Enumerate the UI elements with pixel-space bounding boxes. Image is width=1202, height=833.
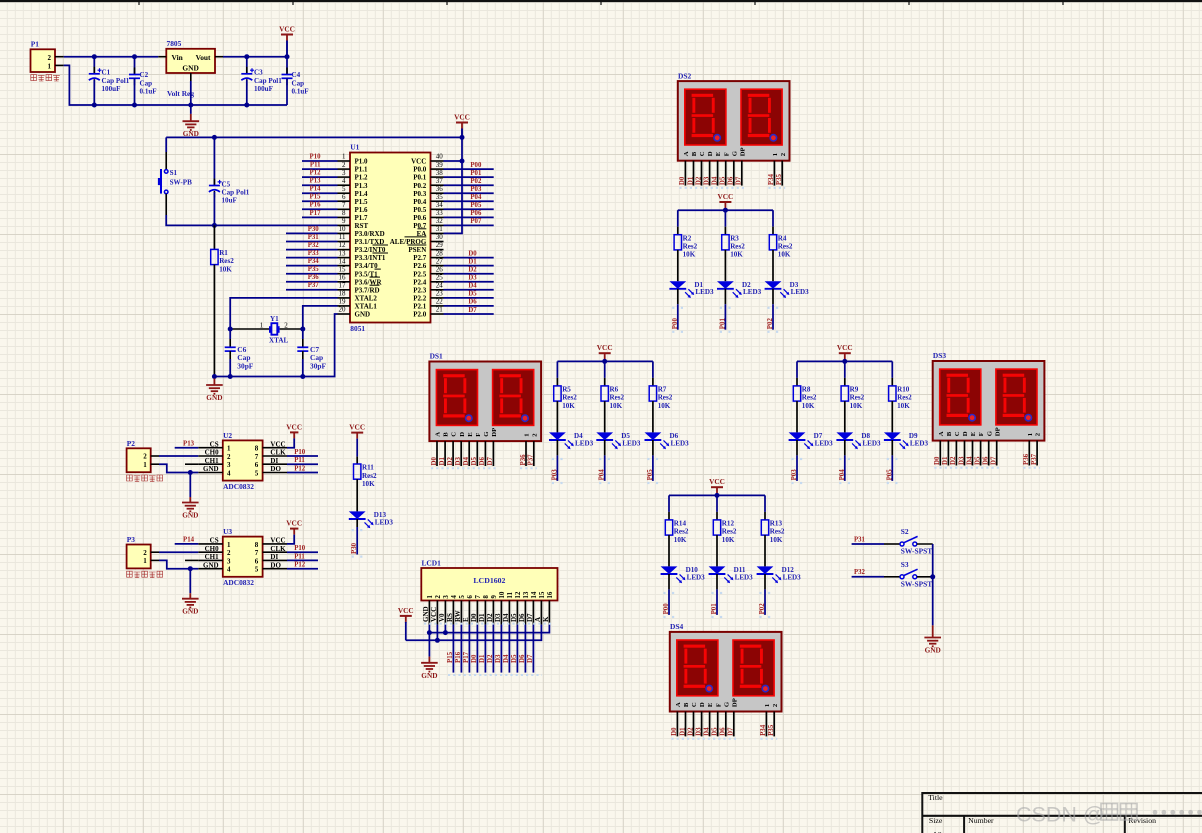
svg-text:D2: D2 [468, 267, 477, 274]
svg-text:CH0: CH0 [205, 545, 220, 553]
svg-text:D: D [699, 702, 706, 707]
svg-text:GND: GND [422, 606, 430, 622]
DS3 pin 4 [964, 441, 966, 466]
junction RST node [212, 223, 217, 228]
svg-text:5: 5 [458, 595, 466, 599]
LED D9 [884, 432, 929, 449]
wire rail to R3 [724, 210, 726, 227]
svg-text:P34: P34 [308, 258, 320, 265]
wire P14 to U1 pin 5 [302, 192, 338, 194]
svg-text:5: 5 [255, 470, 259, 478]
svg-text:10K: 10K [722, 536, 735, 544]
svg-text:P30: P30 [308, 226, 320, 233]
svg-text:P02: P02 [767, 318, 774, 330]
compile marks [672, 307, 683, 309]
compile marks [759, 592, 770, 594]
svg-text:10K: 10K [730, 251, 743, 259]
svg-text:P01: P01 [711, 603, 718, 615]
junction rail C6 [228, 374, 233, 379]
svg-text:VCC: VCC [270, 440, 285, 448]
LCD1 pin numbers [426, 591, 554, 599]
wire P01 from U1 pin 38 [444, 176, 494, 178]
svg-text:P32: P32 [854, 569, 866, 576]
svg-text:D4: D4 [503, 654, 510, 663]
wire LCD pin 4 down [452, 625, 454, 673]
DS4 pin 7 [725, 712, 727, 737]
power GND at 429,663 [421, 657, 438, 680]
svg-text:Res2: Res2 [658, 394, 673, 402]
svg-text:VCC: VCC [597, 343, 613, 352]
svg-text:1: 1 [426, 595, 434, 599]
svg-text:1: 1 [227, 541, 231, 549]
sheet border top edge [0, 0, 1202, 5]
svg-text:20: 20 [339, 306, 347, 314]
svg-text:D4: D4 [463, 457, 470, 466]
wire P03 from U1 pin 36 [444, 192, 494, 194]
svg-text:GND: GND [182, 607, 198, 616]
wire P3 pin2 to CH0 [159, 551, 198, 553]
svg-text:D3: D3 [468, 275, 477, 282]
wire P05 from U1 pin 34 [444, 208, 494, 210]
svg-text:RW: RW [454, 610, 462, 622]
U2 CH1 pin lead [185, 463, 198, 465]
DS3 pin 10 [1036, 441, 1038, 466]
svg-text:DS4: DS4 [670, 622, 683, 631]
svg-text:PSEN: PSEN [408, 246, 426, 254]
svg-text:SW-SPST: SW-SPST [901, 579, 932, 588]
U2 left pins [198, 440, 231, 477]
svg-text:23: 23 [436, 290, 444, 298]
wire C6 bottom [229, 351, 231, 359]
svg-text:Number: Number [968, 816, 994, 825]
wire switches to GND [932, 544, 934, 625]
resistor R13 [761, 520, 785, 544]
compile marks [934, 467, 999, 469]
svg-text:D5: D5 [712, 727, 719, 736]
compile marks [767, 307, 778, 309]
svg-text:D2: D2 [486, 613, 494, 622]
svg-text:Res2: Res2 [562, 394, 577, 402]
svg-text:VCC: VCC [837, 343, 853, 352]
DS1 segment pin letters [435, 428, 539, 437]
compile marks [647, 458, 658, 460]
power GND at 190,599 [182, 593, 199, 616]
svg-text:D0: D0 [471, 654, 478, 663]
DS1 pin 3 [452, 441, 454, 466]
svg-text:28: 28 [436, 249, 444, 257]
svg-text:10uF: 10uF [222, 197, 237, 205]
svg-text:P30: P30 [351, 542, 358, 554]
svg-text:P1.0: P1.0 [355, 158, 369, 166]
capacitor C3 [241, 67, 282, 93]
wire C3 stem [246, 57, 248, 74]
op-amp U3 body (ADC0832) [223, 527, 263, 587]
junction rail center [723, 208, 728, 213]
wire D2 from U1 pin 26 [444, 273, 494, 275]
wire P10 to U1 pin 1 [302, 160, 338, 162]
svg-text:40: 40 [436, 153, 444, 161]
svg-text:ADC0832: ADC0832 [223, 578, 254, 587]
LED D10 [661, 566, 706, 583]
LED D1 [669, 281, 714, 298]
wire P12 from U3 [287, 568, 318, 570]
svg-text:D0: D0 [468, 250, 477, 257]
svg-text:GND: GND [203, 465, 219, 473]
svg-text:P04: P04 [599, 469, 606, 481]
svg-text:D6: D6 [468, 299, 477, 306]
svg-text:LCD1602: LCD1602 [473, 576, 505, 585]
svg-text:GND: GND [203, 561, 219, 569]
wire P12 from U2 [287, 472, 318, 474]
connector P1 [31, 40, 64, 73]
wire R2 to D1 [677, 250, 679, 281]
DS4 pin 9 [765, 712, 767, 737]
svg-text:DS1: DS1 [430, 352, 443, 361]
wire D0 from U1 pin 28 [444, 257, 494, 259]
DS4 segment pin letters [675, 698, 779, 707]
svg-text:R12: R12 [722, 520, 735, 528]
LCD1 pins [422, 601, 550, 625]
svg-text:10K: 10K [683, 251, 696, 259]
svg-text:P33: P33 [308, 250, 320, 257]
DS2 right digit [741, 89, 782, 145]
LED D12 [757, 566, 802, 583]
svg-text:30pF: 30pF [310, 361, 327, 370]
svg-text:VCC: VCC [270, 537, 285, 545]
svg-text:2: 2 [143, 453, 147, 461]
svg-text:3: 3 [227, 461, 231, 469]
svg-text:P1.7: P1.7 [355, 214, 369, 222]
svg-text:0.1uF: 0.1uF [140, 88, 157, 96]
svg-text:R13: R13 [770, 520, 783, 528]
svg-text:Res2: Res2 [362, 472, 377, 480]
svg-text:DS3: DS3 [933, 351, 946, 360]
svg-text:LED3: LED3 [695, 288, 714, 296]
DS1 right digit [493, 370, 534, 426]
U1 EA overline [418, 228, 427, 230]
svg-text:VCC: VCC [286, 422, 302, 431]
wire LCD pin 13 down [524, 625, 526, 673]
wire LCD pin3 down [444, 625, 446, 633]
DS2 pin 9 [773, 161, 775, 186]
svg-text:F: F [715, 703, 722, 707]
wire 7805 GND drop [190, 81, 192, 105]
svg-text:P03: P03 [470, 186, 482, 193]
svg-text:D: D [707, 151, 714, 156]
svg-text:A: A [683, 151, 690, 156]
power VCC at 845,353 [837, 343, 853, 361]
svg-text:D1: D1 [468, 258, 477, 265]
svg-text:C2: C2 [140, 71, 149, 79]
resistor R11 [354, 464, 378, 488]
svg-text:D6: D6 [728, 176, 735, 185]
wire P10 from U2 [287, 455, 318, 457]
compile marks [431, 467, 496, 469]
svg-text:6: 6 [255, 557, 259, 565]
DS3 pin 2 [947, 441, 949, 466]
wire D6 down [652, 440, 654, 455]
svg-text:14: 14 [339, 257, 347, 265]
svg-text:30pF: 30pF [237, 361, 254, 370]
svg-text:GND: GND [182, 511, 198, 520]
svg-text:P01: P01 [719, 318, 726, 330]
DS4 pin 2 [685, 712, 687, 737]
svg-text:8: 8 [255, 541, 259, 549]
LED D7 [789, 432, 834, 449]
wire P37 to U1 pin 17 [286, 289, 338, 291]
svg-text:P13: P13 [310, 178, 322, 185]
svg-text:8: 8 [482, 595, 490, 599]
svg-text:D7: D7 [991, 456, 998, 465]
svg-text:U2: U2 [223, 431, 232, 440]
svg-text:6: 6 [466, 595, 474, 599]
wire P1 pin2 to 7805 Vin [64, 56, 159, 58]
wire C2 stem [134, 57, 136, 75]
LED D2 [717, 281, 762, 298]
wire C2 bottom [134, 78, 136, 105]
power VCC at 717,487 [709, 477, 725, 495]
svg-text:10K: 10K [610, 402, 623, 410]
svg-text:DP: DP [731, 698, 738, 707]
svg-text:15: 15 [339, 265, 347, 273]
pushbutton S1 SW-PB [158, 169, 192, 194]
svg-text:P1.5: P1.5 [355, 198, 369, 206]
wire LCD pin 11 down [508, 625, 510, 673]
svg-text:CSDN @: CSDN @ [1016, 803, 1105, 827]
wire rail to R8 [796, 361, 798, 378]
7-segment display DS1 body [429, 352, 541, 441]
svg-text:C: C [691, 702, 698, 707]
svg-text:P04: P04 [839, 469, 846, 481]
wire P10 from U3 [287, 551, 318, 553]
DS2 pin 1 [684, 161, 686, 186]
wire P14 to U3 CS [175, 543, 199, 545]
svg-text:31: 31 [436, 225, 444, 233]
junction rail C7 [300, 374, 305, 379]
DS3 pin 5 [972, 441, 974, 466]
wire P12 to U1 pin 3 [302, 176, 338, 178]
svg-text:12: 12 [514, 591, 522, 599]
wire GND drop [189, 569, 191, 594]
DS4 pin 5 [709, 712, 711, 737]
DS4 pin 8 [733, 712, 735, 737]
svg-text:DI: DI [270, 457, 278, 465]
label chuanganqi-jiekou (sensor connector) [127, 571, 163, 577]
junction C2 top [132, 54, 137, 59]
svg-text:F: F [978, 432, 985, 436]
svg-text:A: A [534, 617, 542, 622]
DS3 segment pin letters [938, 427, 1042, 436]
svg-text:2: 2 [227, 549, 231, 557]
wire P1 pin1 down to ground rail [64, 65, 287, 105]
svg-text:P2.4: P2.4 [413, 278, 427, 286]
U1 right pins 21-40 [390, 153, 444, 319]
svg-text:11: 11 [339, 233, 346, 241]
resistor R7 [649, 386, 673, 410]
power VCC at 357,433 [349, 423, 365, 439]
svg-text:E: E [462, 617, 470, 622]
wire crystal ground rail [214, 376, 302, 378]
compile marks [352, 529, 363, 531]
U3 right pins [255, 537, 287, 574]
svg-text:2: 2 [143, 549, 147, 557]
svg-text:P0.0: P0.0 [413, 166, 427, 174]
wire VCC to R11 [356, 439, 358, 457]
svg-text:D1: D1 [679, 727, 686, 736]
svg-text:C1: C1 [102, 69, 111, 77]
svg-text:10K: 10K [897, 402, 910, 410]
svg-text:U1: U1 [350, 142, 359, 151]
junction GND drop [188, 470, 193, 475]
svg-text:Res2: Res2 [770, 528, 785, 536]
power VCC at 287,34 [279, 25, 295, 57]
svg-text:GND: GND [206, 393, 222, 402]
svg-text:P0.2: P0.2 [413, 182, 427, 190]
wire P33 to U1 pin 13 [286, 257, 338, 259]
svg-text:P12: P12 [310, 170, 322, 177]
svg-text:D3: D3 [958, 456, 965, 465]
svg-text:DO: DO [270, 465, 281, 473]
svg-text:P1.4: P1.4 [355, 190, 369, 198]
svg-text:XTAL: XTAL [269, 337, 288, 345]
svg-text:Cap: Cap [292, 79, 305, 87]
svg-text:P2: P2 [127, 439, 136, 448]
compile marks [552, 458, 563, 460]
svg-text:10K: 10K [770, 536, 783, 544]
svg-text:P06: P06 [470, 210, 482, 217]
svg-text:P12: P12 [294, 562, 306, 569]
junction VCC node [285, 54, 290, 59]
voltage regulator 7805 [158, 39, 223, 81]
svg-text:A: A [675, 702, 682, 707]
svg-text:R14: R14 [674, 520, 687, 528]
svg-text:P36: P36 [308, 274, 320, 281]
svg-text:D3: D3 [695, 727, 702, 736]
wire U1 GND pin20 down [303, 314, 338, 377]
svg-text:S1: S1 [170, 169, 178, 177]
svg-text:33: 33 [436, 209, 444, 217]
svg-text:P07: P07 [470, 218, 482, 225]
svg-text:3: 3 [227, 557, 231, 565]
wire rail to R10 [891, 361, 893, 378]
connector P2 [127, 439, 159, 472]
svg-text:D6: D6 [518, 613, 526, 622]
svg-text:D7: D7 [728, 727, 735, 736]
wire rail to R9 [844, 361, 846, 378]
U3 CH1 pin lead [185, 559, 198, 561]
svg-text:P02: P02 [470, 178, 482, 185]
svg-text:11: 11 [506, 591, 514, 598]
label chuanganqi-jiekou (sensor connector) [127, 475, 163, 481]
wire P2 pin1 to GND rail [159, 464, 198, 472]
wire P17 to U1 pin 8 [302, 216, 338, 218]
DS3 pin 6 [980, 441, 982, 466]
svg-text:5: 5 [342, 185, 346, 193]
svg-text:100uF: 100uF [102, 85, 121, 93]
DS1 left digit [436, 370, 477, 426]
DS3 pin 3 [955, 441, 957, 466]
svg-text:D0: D0 [671, 727, 678, 736]
svg-text:D2: D2 [487, 654, 494, 663]
svg-text:2: 2 [434, 595, 442, 599]
svg-text:P35: P35 [768, 724, 775, 736]
junction LCD pin1 bus [427, 630, 432, 635]
wire C4 stem [286, 57, 288, 75]
svg-text:D1: D1 [478, 613, 486, 622]
DS2 pin 2 [693, 161, 695, 186]
junction C2 bottom [132, 103, 137, 108]
svg-text:P35: P35 [308, 266, 320, 273]
wire P11 to U1 pin 2 [302, 168, 338, 170]
svg-text:Res2: Res2 [778, 243, 793, 251]
power VCC at 294,432 [286, 422, 302, 438]
compile marks [720, 307, 731, 309]
wire D11 down [716, 574, 718, 589]
svg-text:D1: D1 [439, 457, 446, 466]
wire rail to R12 [716, 495, 718, 512]
wire P31 to U1 pin 11 [286, 241, 338, 243]
svg-text:Cap Pol1: Cap Pol1 [254, 77, 282, 85]
svg-text:D0: D0 [679, 176, 686, 185]
wire U1 XTAL2 to crystal [230, 298, 337, 329]
svg-text:10K: 10K [802, 402, 815, 410]
wire LCD pin 5 down [460, 625, 462, 673]
power GND at 191,121 [183, 114, 200, 138]
op-amp U1 body (8051 MCU) [350, 142, 431, 333]
wire LCD pin 9 down [492, 625, 494, 673]
DS4 pin 6 [717, 712, 719, 737]
U1 ALE/PROG overline [405, 236, 427, 238]
svg-text:Res2: Res2 [802, 394, 817, 402]
wire R12 to D11 [716, 535, 718, 566]
wire 7805 Vout to VCC node [223, 56, 287, 58]
svg-text:Res2: Res2 [219, 257, 234, 265]
svg-text:7: 7 [255, 453, 259, 461]
svg-text:8051: 8051 [350, 324, 365, 333]
svg-text:1: 1 [772, 153, 779, 156]
svg-text:RS: RS [446, 613, 454, 622]
DS4 pin 4 [701, 712, 703, 737]
svg-text:Res2: Res2 [897, 394, 912, 402]
wire D1 from U1 pin 27 [444, 265, 494, 267]
svg-text:P14: P14 [183, 537, 195, 544]
wire R5 to D4 [556, 401, 558, 432]
capacitor C7 [297, 345, 326, 370]
svg-text:LED3: LED3 [687, 573, 706, 581]
svg-text:P11: P11 [294, 457, 305, 464]
wire D1 down [677, 289, 679, 304]
svg-text:8: 8 [255, 445, 259, 453]
svg-text:D2: D2 [695, 176, 702, 185]
wire LCD pin 7 down [476, 625, 478, 673]
svg-text:0.1uF: 0.1uF [292, 88, 309, 96]
svg-text:1: 1 [143, 461, 147, 469]
svg-text:V0: V0 [438, 613, 446, 622]
svg-text:DI: DI [270, 553, 278, 561]
svg-text:4: 4 [227, 566, 231, 574]
DS2 pin 4 [709, 161, 711, 186]
LED D3 [765, 281, 810, 298]
svg-text:D4: D4 [468, 283, 477, 290]
svg-text:D0: D0 [431, 457, 438, 466]
wire C5 stem [213, 137, 215, 185]
svg-text:DP: DP [491, 428, 498, 437]
wire P00 from U1 pin 39 [444, 168, 494, 170]
7-segment display DS2 body [678, 71, 790, 160]
svg-text:A: A [938, 431, 945, 436]
svg-text:R9: R9 [850, 386, 859, 394]
svg-text:C5: C5 [222, 180, 231, 188]
